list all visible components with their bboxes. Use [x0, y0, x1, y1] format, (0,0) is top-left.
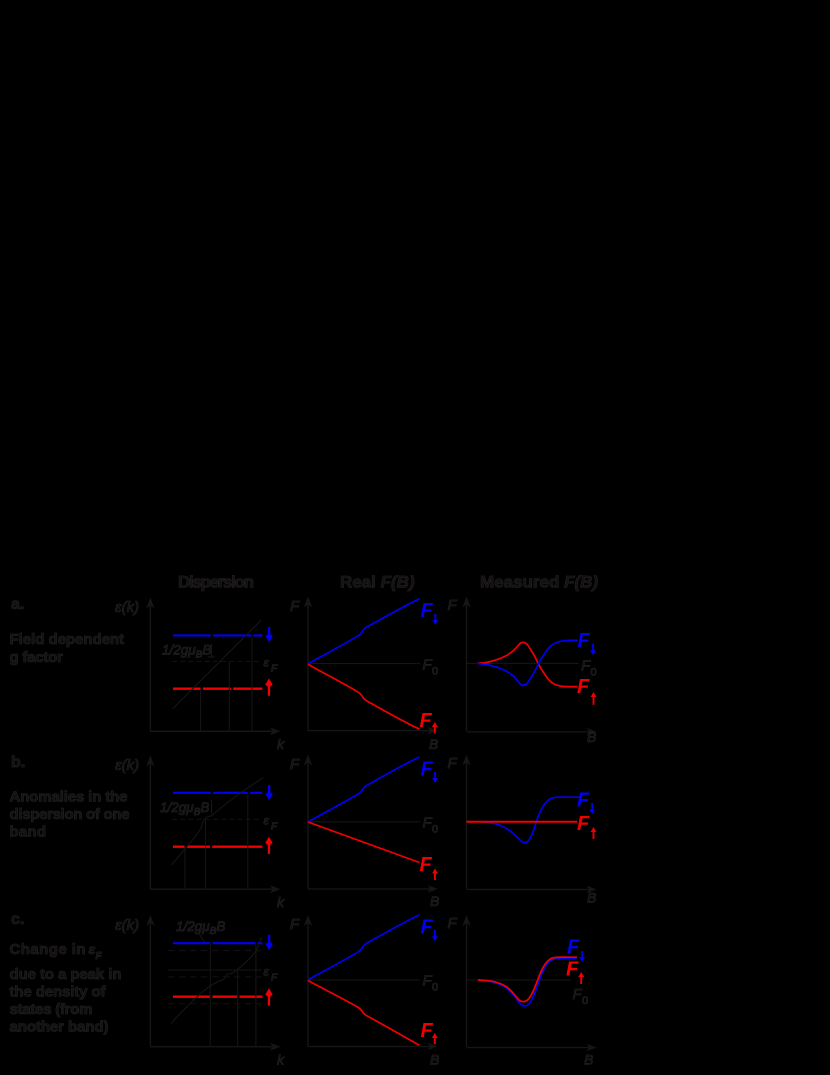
svg-text:g factor: g factor — [10, 649, 64, 666]
row c dispersion y-axis label eps(k) — [115, 917, 139, 934]
row b Measured-F y-axis label F — [448, 755, 458, 772]
row a Real-F y-axis — [304, 597, 312, 731]
row b Measured-F blue curve (dip then plateau) — [478, 797, 580, 843]
row a Real-F blue branch — [308, 599, 420, 664]
row b Real-F y-axis label F — [290, 756, 300, 773]
row b spin-up arrow (red) — [265, 837, 273, 854]
label a. — [11, 596, 24, 613]
column header Dispersion — [178, 573, 254, 592]
row c Measured-F x-axis label B — [584, 1052, 593, 1068]
svg-text:another band): another band) — [10, 1019, 109, 1036]
row a spin-down arrow (blue) — [265, 627, 273, 642]
row b dispersion x-axis label k — [277, 894, 285, 910]
row b F0 reference line — [308, 821, 420, 822]
row b Measured-F x-axis — [467, 886, 597, 894]
svg-text:F: F — [421, 1020, 434, 1042]
row b Real-F red label F-up — [420, 854, 438, 880]
svg-text:F: F — [581, 658, 591, 675]
row b dispersion x-axis k — [150, 885, 281, 893]
svg-text:0: 0 — [432, 824, 438, 836]
svg-text:B: B — [587, 729, 596, 745]
svg-text:F: F — [290, 756, 300, 773]
row a Measured-F red curve (peak then low plateau) — [478, 642, 578, 686]
svg-text:Change in: Change in — [10, 941, 86, 958]
row c Real-F x-axis label B — [430, 1052, 439, 1068]
row c unshifted spin-up level dashed — [168, 1003, 261, 1005]
row c kF vertical markers — [210, 943, 257, 1046]
row a spin-up level (red) — [173, 688, 262, 690]
row c Fermi label epsF — [264, 965, 279, 984]
row b Measured-F y-axis — [462, 755, 470, 889]
row a splitting tick — [208, 644, 215, 658]
svg-text:F: F — [578, 630, 591, 652]
svg-text:k: k — [277, 736, 285, 752]
row c Measured-F red curve (slightly above blue at dip) — [478, 957, 577, 1001]
row c F0 reference line — [308, 980, 420, 981]
svg-text:B: B — [430, 1052, 439, 1068]
row c Measured-F x-axis — [467, 1044, 597, 1052]
row c spin-down arrow (blue) — [265, 935, 273, 951]
row a Real-F red branch — [308, 664, 420, 729]
row a dispersion x-axis k — [150, 727, 281, 735]
row c Measured-F baseline — [467, 980, 571, 981]
svg-text:F: F — [421, 759, 434, 781]
svg-text:F: F — [577, 790, 590, 812]
svg-text:c.: c. — [11, 911, 24, 928]
row a Fermi level dashed — [172, 660, 262, 662]
row a Measured-F y-axis — [462, 597, 470, 731]
row b caption — [10, 789, 130, 841]
row a Measured-F y-axis label F — [448, 597, 458, 614]
column header Real F(B) — [340, 573, 415, 592]
row a kF vertical markers — [200, 635, 252, 731]
row c dispersion x-axis label k — [277, 1052, 285, 1068]
svg-text:the density of: the density of — [10, 984, 107, 1001]
svg-text:B: B — [429, 736, 438, 752]
svg-text:F: F — [420, 710, 433, 732]
row a Measured-F x-axis label B — [587, 729, 596, 745]
svg-text:ε: ε — [264, 656, 270, 670]
row b kF vertical markers — [184, 793, 248, 889]
svg-text:F: F — [271, 973, 278, 984]
row a dispersion x-axis label k — [277, 736, 285, 752]
row c caption — [10, 941, 122, 1036]
svg-text:B: B — [584, 1052, 593, 1068]
svg-text:F: F — [271, 822, 278, 833]
svg-text:0: 0 — [432, 982, 438, 994]
row c Real-F y-axis — [304, 915, 312, 1047]
row a Measured-F blue label F-down — [578, 630, 597, 655]
row c Measured-F y-axis label F — [448, 915, 458, 932]
row a dispersion y-axis label eps(k) — [115, 599, 139, 616]
svg-text:ε: ε — [89, 941, 96, 957]
row c Measured-F blue label F-down — [567, 937, 585, 963]
svg-text:F: F — [290, 598, 300, 615]
svg-text:0: 0 — [582, 995, 588, 1007]
svg-text:due to a peak in: due to a peak in — [10, 966, 122, 983]
row c Real-F red branch with kink — [308, 981, 420, 1046]
row c spin-up level (red, shifted) — [173, 996, 262, 998]
svg-text:F: F — [290, 916, 300, 933]
svg-text:F: F — [421, 600, 434, 622]
svg-text:F: F — [423, 815, 433, 832]
row b F0 label — [423, 815, 439, 836]
svg-text:F: F — [577, 813, 590, 835]
row b splitting label 1/2 g muB B — [160, 800, 209, 818]
svg-text:b.: b. — [11, 754, 25, 771]
row c dispersion y-axis — [146, 915, 154, 1047]
row a F0 reference line — [308, 663, 420, 664]
row b Fermi level dashed — [172, 818, 262, 820]
row c dispersion x-axis k — [150, 1043, 281, 1051]
svg-text:states (from: states (from — [10, 1001, 93, 1018]
svg-text:0: 0 — [591, 667, 597, 679]
row a Measured-F baseline — [467, 663, 579, 664]
row a Measured-F x-axis — [467, 728, 597, 736]
row b Fermi label epsF — [264, 814, 279, 833]
svg-text:Measured F(B): Measured F(B) — [480, 573, 598, 592]
row a Measured-F blue curve (dip then high plateau) — [478, 640, 578, 685]
svg-text:Real F(B): Real F(B) — [340, 573, 415, 592]
svg-text:F: F — [421, 917, 434, 939]
row c Measured-F blue curve — [478, 958, 577, 1006]
svg-text:ε(k): ε(k) — [115, 757, 139, 774]
svg-text:B: B — [430, 893, 439, 909]
row b spin-down arrow (blue) — [265, 785, 273, 800]
row b dispersion curve with anomaly — [171, 778, 264, 866]
row c spin-up arrow (red) — [265, 988, 273, 1005]
row c F0 label — [423, 973, 439, 994]
row c shifted Fermi line — [168, 969, 261, 971]
row b dispersion y-axis — [146, 756, 154, 890]
svg-text:k: k — [277, 894, 285, 910]
row c spin-down level (blue, shifted) — [173, 942, 262, 944]
svg-text:F: F — [423, 973, 433, 990]
row a Fermi label epsF — [264, 656, 279, 675]
svg-text:F: F — [448, 597, 458, 614]
row c Real-F blue branch — [308, 915, 420, 980]
label c. — [11, 911, 24, 928]
column header Measured F(B) — [480, 573, 598, 592]
row a Measured-F F0 label — [581, 658, 597, 679]
row c Real-F blue label F-down — [421, 917, 438, 942]
row b Measured-F blue label F-down — [577, 790, 595, 815]
row b Real-F y-axis — [304, 755, 312, 889]
label b. — [11, 754, 25, 771]
svg-text:dispersion of one: dispersion of one — [10, 806, 130, 823]
row a spin-down level (blue) — [173, 634, 262, 636]
row a Real-F y-axis label F — [290, 598, 300, 615]
svg-text:F: F — [573, 986, 583, 1003]
svg-text:B: B — [587, 890, 596, 906]
row b Real-F blue label F-down — [421, 759, 439, 784]
svg-text:F: F — [567, 937, 580, 959]
row a spin-up arrow (red) — [265, 678, 273, 695]
row a F0 label — [423, 657, 439, 678]
row b Real-F x-axis label B — [430, 893, 439, 909]
row a Real-F red label F-up — [420, 710, 438, 734]
row a Real-F blue label F-down — [421, 600, 439, 625]
svg-text:a.: a. — [11, 596, 24, 613]
svg-text:0: 0 — [432, 666, 438, 678]
row c Real-F x-axis — [308, 1043, 438, 1051]
svg-text:ε: ε — [264, 814, 270, 828]
row b dispersion y-axis label eps(k) — [115, 757, 139, 774]
svg-text:Anomalies in the: Anomalies in the — [10, 789, 128, 806]
row b Real-F red branch (linear) — [308, 822, 420, 863]
row b Measured-F baseline under red — [467, 821, 579, 822]
row c splitting leader — [199, 934, 205, 943]
svg-text:band: band — [10, 824, 47, 841]
row c unshifted Fermi dashed — [168, 976, 261, 978]
svg-text:F: F — [271, 664, 278, 675]
row b Real-F blue branch — [308, 757, 420, 822]
row a dispersion y-axis eps(k) — [146, 598, 154, 732]
row c Measured-F y-axis — [462, 915, 470, 1047]
svg-text:ε: ε — [264, 965, 270, 979]
row b spin-up level (red) — [173, 846, 262, 848]
row b Real-F x-axis — [308, 885, 438, 893]
row c Measured-F F0 label — [573, 986, 589, 1007]
row b splitting tick — [211, 800, 212, 813]
svg-text:F: F — [448, 915, 458, 932]
row c Real-F red label F-up — [421, 1020, 438, 1044]
row b spin-down level (blue) — [173, 792, 262, 794]
row a Real-F x-axis — [308, 727, 438, 735]
svg-text:F: F — [566, 959, 579, 981]
row a Real-F x-axis label B — [429, 736, 438, 752]
row a dispersion curve (linear) — [173, 620, 261, 709]
row c dispersion curve with anomaly — [171, 938, 262, 1024]
row a caption: Field dependent g factor — [10, 631, 125, 666]
svg-text:F: F — [420, 854, 433, 876]
svg-text:Field dependent: Field dependent — [10, 631, 125, 648]
svg-text:F: F — [423, 657, 433, 674]
row b Measured-F red curve (flat) — [467, 821, 578, 823]
svg-text:F: F — [96, 951, 103, 962]
svg-text:F: F — [577, 676, 590, 698]
row a Measured-F red label F-up — [577, 676, 596, 705]
row b Measured-F x-axis label B — [587, 890, 596, 906]
svg-text:Dispersion: Dispersion — [178, 573, 254, 592]
svg-text:ε(k): ε(k) — [115, 599, 139, 616]
row c Real-F y-axis label F — [290, 916, 300, 933]
svg-text:F: F — [448, 755, 458, 772]
svg-text:ε(k): ε(k) — [115, 917, 139, 934]
row c splitting label 1/2 g muB B above blue line — [176, 919, 225, 937]
svg-text:k: k — [277, 1052, 285, 1068]
row b Measured-F red label F-up — [577, 813, 596, 839]
row c Measured-F red label F-up — [566, 959, 584, 985]
row a splitting label 1/2 g muB B — [162, 643, 211, 661]
row c unshifted spin-down level dashed — [168, 950, 261, 952]
